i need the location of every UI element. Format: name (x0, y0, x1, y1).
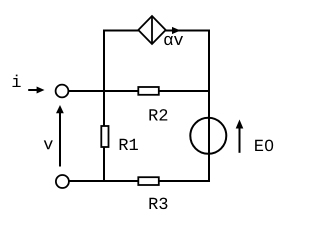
wire top branch left (104, 30, 140, 32)
voltage source E0 circle (190, 118, 226, 154)
resistor R1 (101, 126, 108, 147)
label R2 (149, 109, 167, 120)
label R3 (149, 198, 167, 210)
wire right vertical (208, 30, 210, 183)
resistor R3 (138, 177, 159, 185)
wire bottom (68, 180, 209, 182)
resistor R2 (138, 87, 159, 95)
wire left vertical (103, 30, 105, 183)
label v (44, 140, 53, 149)
label R1 (120, 139, 138, 150)
wire middle node (68, 90, 209, 92)
arrow E0 reference (236, 120, 244, 153)
terminal node bottom (56, 175, 69, 188)
dependent source diamond (138, 16, 165, 44)
arrow on controlled source output (172, 27, 181, 34)
terminal node top (56, 85, 69, 98)
label E0 (255, 140, 273, 152)
arrow i (28, 87, 44, 94)
label alpha-v (164, 36, 183, 45)
wire top branch right (164, 30, 210, 32)
arrow v (56, 105, 64, 167)
label i (12, 75, 20, 87)
